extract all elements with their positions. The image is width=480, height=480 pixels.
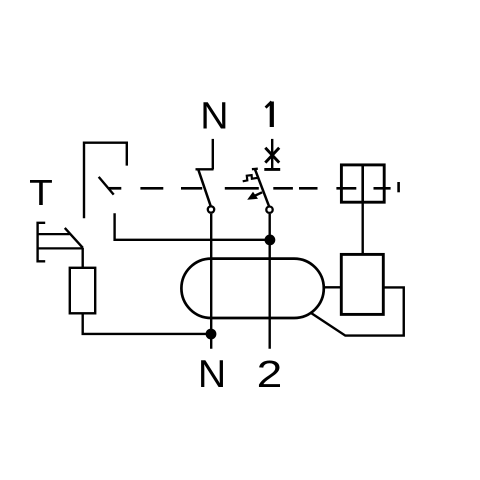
linkage end tick	[397, 182, 400, 192]
N pole moving contact circle	[208, 206, 214, 212]
mechanical linkage dashed line	[109, 187, 391, 190]
N pole switch blade	[199, 170, 211, 206]
wire: release box to relay coil	[362, 202, 364, 254]
test switch blade (upper contact)	[99, 177, 114, 195]
test button contact blade	[65, 228, 83, 248]
resistor R (test resistor)	[70, 268, 95, 314]
label 1 (top terminal)	[266, 102, 272, 128]
square box: residual current release	[341, 165, 384, 202]
wire: N pole top terminal	[212, 139, 214, 169]
N pole fixed contact tick	[196, 168, 214, 170]
svg-text:T: T	[29, 172, 53, 213]
wire: supply to test contact (top-left bracket)	[84, 143, 127, 219]
wire: resistor to N-pole junction	[83, 313, 211, 334]
junction dot (pole 1 / test circuit)	[265, 235, 276, 246]
divider of release box	[361, 165, 364, 202]
current transformer toroid	[181, 259, 323, 318]
wire: N pole lower conductor	[210, 214, 212, 349]
pole 1 moving contact circle	[266, 207, 272, 213]
relay coil box	[341, 254, 383, 314]
svg-text:N: N	[198, 353, 226, 396]
overcurrent trip zigzag	[243, 175, 259, 181]
trip arrow shaft	[254, 192, 263, 196]
trip arrow head	[247, 192, 258, 200]
wire: test switch to pole-1 junction	[115, 213, 270, 240]
svg-text:N: N	[200, 95, 228, 138]
wire: button contact to resistor	[81, 248, 83, 268]
wire: toroid secondary to relay	[325, 286, 342, 288]
pole 1 fixed contact bar	[264, 168, 280, 171]
wire: pole 1 lower conductor	[269, 214, 271, 349]
svg-text:2: 2	[257, 353, 283, 395]
test button push rod upper	[38, 233, 70, 235]
test button push rod lower	[38, 247, 83, 249]
wire: pole 1 top terminal	[271, 139, 273, 170]
junction dot (N conductor / test resistor)	[206, 329, 217, 340]
pole 1 blade top tick	[252, 168, 258, 171]
arc chute X symbol	[265, 148, 279, 163]
pole 1 switch blade	[255, 169, 269, 206]
wire: toroid secondary return loop	[311, 287, 404, 335]
test button actuator bracket	[38, 223, 46, 261]
